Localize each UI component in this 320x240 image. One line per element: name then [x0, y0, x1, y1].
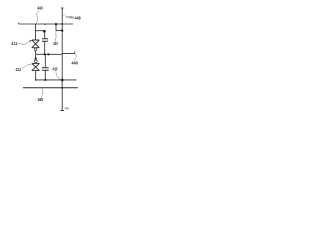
device 411 circle — [34, 48, 37, 51]
svg-text:-Ve: -Ve — [64, 106, 70, 111]
leader 411 — [18, 41, 31, 45]
wire top-left terminal tick — [18, 23, 20, 24]
arrowhead 412 — [32, 63, 34, 65]
leader 430 — [56, 71, 62, 80]
svg-text:412: 412 — [16, 67, 22, 72]
svg-text:420: 420 — [53, 41, 58, 46]
junction (48.4,54.3) — [47, 53, 49, 55]
wire second line — [35, 30, 45, 32]
wire device2 bottom lead — [35, 71, 37, 80]
wire cap2 bottom lead — [44, 70, 46, 80]
device 412 circle — [35, 60, 38, 63]
wire cap2 top lead — [44, 54, 46, 67]
svg-text:443: 443 — [37, 6, 43, 11]
junction (35.7,79.9) — [35, 79, 37, 81]
junction (44.7,54.3) — [44, 53, 46, 55]
wire middle stub end tick — [74, 51, 76, 53]
leader 450 — [41, 88, 43, 98]
svg-text:430: 430 — [53, 66, 58, 71]
junction (62.2,29.7) — [61, 29, 63, 31]
wire cap1 top lead — [44, 31, 46, 39]
wire right rail — [61, 8, 63, 111]
arrowheads — [29, 40, 34, 65]
wire rail top tick — [61, 7, 64, 9]
junction (56,24) — [55, 23, 57, 25]
capacitor C2 — [42, 68, 49, 70]
protection device 411 — [32, 40, 40, 48]
capacitor C1 — [42, 39, 48, 42]
junction (45,24.3) — [44, 24, 45, 25]
wire jog from top line to rail — [56, 24, 62, 30]
leader 443 — [37, 10, 40, 23]
junction device2 top (35.7,58.6) — [35, 57, 37, 59]
wire device2 top lead — [35, 54, 37, 60]
junction (62.2,87.6) — [61, 87, 63, 89]
leader 440 — [74, 54, 76, 60]
wire device1 bottom lead — [35, 51, 37, 54]
junction (45.3,79.9) — [44, 79, 46, 81]
junction dots — [35, 23, 64, 89]
wire cap1 bottom lead — [44, 41, 46, 54]
junction (62.2,80) — [61, 79, 64, 82]
protection device 412 — [32, 63, 40, 70]
svg-text:411: 411 — [11, 41, 18, 46]
labels — [11, 6, 81, 103]
leader lines — [18, 10, 77, 98]
node line2 — [23, 87, 78, 89]
junction (62.2,24) — [61, 23, 63, 25]
junction cap1 top (44.6,31) — [43, 30, 46, 33]
node +Ve top line — [19, 23, 73, 25]
svg-text:448: 448 — [75, 15, 82, 20]
leader 420 — [54, 31, 57, 41]
svg-text:450: 450 — [38, 97, 44, 102]
node line1 — [36, 79, 77, 81]
leader 412 — [22, 64, 33, 69]
svg-text:440: 440 — [72, 60, 79, 65]
arrowhead 411 — [29, 40, 32, 42]
leader 448 — [63, 15, 74, 18]
svg-text:+Ve: +Ve — [66, 15, 75, 20]
node middle line — [36, 53, 75, 56]
wire device1 top lead — [35, 24, 37, 40]
ground rail bottom terminal bar — [61, 110, 64, 112]
